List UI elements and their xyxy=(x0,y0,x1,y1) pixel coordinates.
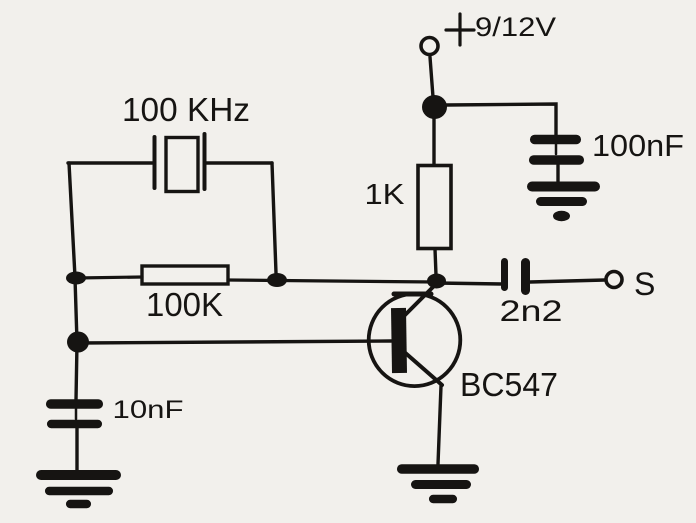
capacitor C1 2n2 xyxy=(505,262,526,291)
svg-text:100nF: 100nF xyxy=(592,129,684,163)
wire emitter to ground xyxy=(438,386,441,464)
node B junction xyxy=(67,332,89,353)
plus sign of supply label xyxy=(446,14,474,45)
crystal X1 100KHz xyxy=(155,134,205,192)
ground (10nF) xyxy=(41,475,116,504)
transistor Q1 BC547 xyxy=(369,284,461,386)
svg-text:100K: 100K xyxy=(146,286,223,323)
svg-text:10nF: 10nF xyxy=(113,396,184,424)
wire supply terminal to node E xyxy=(430,57,433,97)
wire crystal left lead xyxy=(68,161,154,164)
capacitor C2 100nF xyxy=(534,140,580,184)
wire node A to node B vertical xyxy=(75,278,77,342)
svg-text:1K: 1K xyxy=(365,179,406,211)
svg-text:100 KHz: 100 KHz xyxy=(122,91,250,128)
wire 100K right to node C and on to collector node D xyxy=(228,280,436,282)
wire node B to 10nF xyxy=(76,343,77,400)
svg-text:2n2: 2n2 xyxy=(500,295,563,328)
ground (100nF) xyxy=(532,187,595,220)
resistor R2 1K xyxy=(418,166,451,249)
wire node A to 100K left xyxy=(76,277,142,278)
wire left vertical (crystal to node A) xyxy=(69,163,75,277)
wire node D to 2n2 xyxy=(436,283,502,284)
wire 2n2 to terminal S xyxy=(530,280,605,282)
wire base (node B to transistor base) xyxy=(78,341,391,343)
wire right vertical (crystal to node C) xyxy=(272,163,276,273)
terminal +9/12V xyxy=(421,38,438,55)
wire 1K bottom to node D xyxy=(435,249,436,275)
node A junction xyxy=(66,272,86,285)
terminal S xyxy=(606,272,622,288)
svg-text:S: S xyxy=(634,266,655,302)
svg-text:9/12V: 9/12V xyxy=(475,12,556,42)
wire node E to 1K top xyxy=(432,118,435,165)
node E junction xyxy=(422,95,447,119)
svg-text:BC547: BC547 xyxy=(460,366,558,403)
wire node E to 100nF xyxy=(446,104,556,136)
wire crystal right lead xyxy=(205,161,272,164)
resistor R1 100K xyxy=(142,266,228,284)
capacitor C3 10nF xyxy=(51,404,99,470)
node C junction xyxy=(267,273,287,287)
ground (emitter) xyxy=(402,469,475,499)
node D junction xyxy=(427,274,446,289)
